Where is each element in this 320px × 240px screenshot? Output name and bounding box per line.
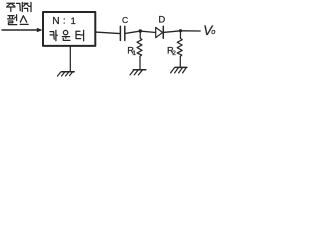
label 카운터 (counter) hand-drawn hangul xyxy=(50,30,84,41)
ground R1 xyxy=(133,69,146,71)
junction node 2 xyxy=(179,29,182,32)
svg-text:2: 2 xyxy=(172,50,176,57)
resistor R2 xyxy=(177,31,182,68)
label input line1: 주기적 (periodic) hand-drawn hangul xyxy=(7,2,31,11)
junction node 1 xyxy=(139,29,143,33)
box N:1 counter xyxy=(43,12,95,46)
wire capacitor to node 1 xyxy=(125,31,141,33)
wire node 2 to output xyxy=(181,30,201,32)
diode D xyxy=(156,27,163,37)
wire box to capacitor xyxy=(95,32,120,34)
svg-text:1: 1 xyxy=(132,50,136,57)
ground under box xyxy=(62,71,75,73)
svg-text:C: C xyxy=(122,15,128,25)
capacitor C xyxy=(120,26,124,40)
resistor R1 xyxy=(137,31,142,70)
svg-text:N: N xyxy=(52,16,59,27)
svg-text:D: D xyxy=(158,14,165,25)
svg-text::: : xyxy=(63,16,66,26)
label input line2: 펄스 (pulse) hand-drawn hangul xyxy=(8,15,29,25)
ground lead under box xyxy=(69,46,71,72)
arrow into counter box xyxy=(2,29,38,31)
svg-text:o: o xyxy=(211,27,215,36)
wire diode to node 2 xyxy=(163,31,180,33)
wire node 1 to diode xyxy=(140,31,155,32)
ground R2 xyxy=(175,66,187,68)
svg-text:1: 1 xyxy=(71,16,76,26)
